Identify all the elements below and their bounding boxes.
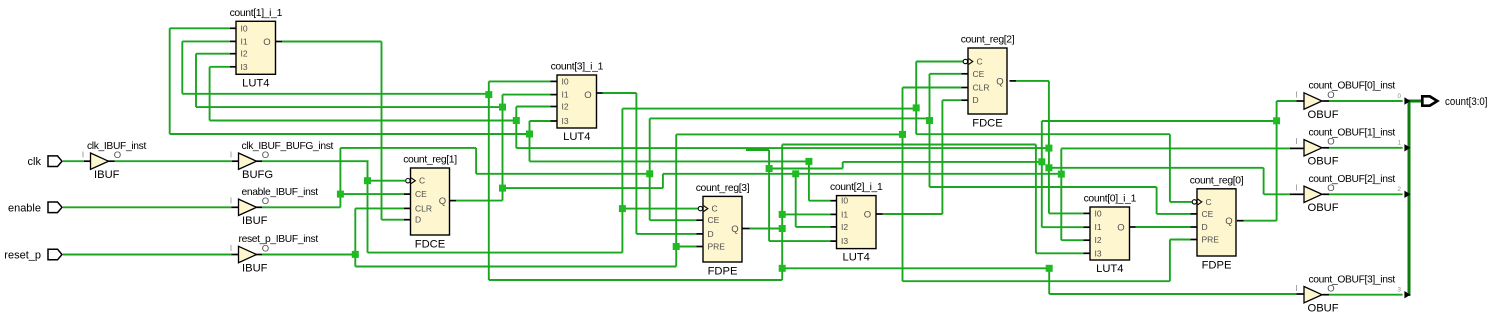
svg-text:CLR: CLR [973, 83, 990, 93]
svg-text:I1: I1 [562, 90, 569, 100]
svg-text:1: 1 [1398, 140, 1402, 147]
svg-text:IBUF: IBUF [242, 215, 268, 227]
svg-text:count[2]_i_1: count[2]_i_1 [830, 182, 883, 193]
svg-text:CLR: CLR [415, 203, 432, 213]
svg-text:D: D [973, 95, 979, 105]
svg-text:OBUF: OBUF [1308, 109, 1339, 121]
svg-text:I3: I3 [841, 236, 848, 246]
svg-text:reset_p: reset_p [4, 250, 41, 262]
svg-text:count_OBUF[1]_inst: count_OBUF[1]_inst [1309, 127, 1396, 138]
svg-text:I2: I2 [841, 222, 848, 232]
svg-text:C: C [419, 176, 425, 186]
svg-text:I: I [230, 197, 232, 206]
svg-text:IBUF: IBUF [94, 169, 120, 181]
svg-text:D: D [1202, 222, 1208, 232]
svg-text:count[3]_i_1: count[3]_i_1 [551, 62, 604, 73]
svg-text:count[1]_i_1: count[1]_i_1 [230, 8, 283, 19]
svg-text:LUT4: LUT4 [242, 77, 269, 89]
svg-text:3: 3 [1398, 287, 1402, 294]
svg-text:enable: enable [8, 202, 41, 214]
svg-text:OBUF: OBUF [1308, 303, 1339, 315]
svg-text:IBUF: IBUF [242, 262, 268, 274]
svg-text:I: I [82, 151, 84, 160]
svg-text:count_OBUF[2]_inst: count_OBUF[2]_inst [1309, 174, 1396, 185]
svg-text:count_reg[1]: count_reg[1] [403, 155, 457, 166]
svg-text:I1: I1 [1095, 222, 1102, 232]
svg-text:LUT4: LUT4 [1096, 263, 1123, 275]
svg-text:clk: clk [28, 156, 42, 168]
svg-text:Q: Q [731, 224, 738, 235]
svg-text:clk_IBUF_BUFG_inst: clk_IBUF_BUFG_inst [242, 141, 334, 152]
svg-text:I0: I0 [562, 76, 569, 86]
svg-text:I: I [1295, 90, 1297, 99]
svg-text:I2: I2 [1095, 235, 1102, 245]
svg-text:I1: I1 [841, 209, 848, 219]
svg-text:I: I [230, 151, 232, 160]
svg-text:LUT4: LUT4 [563, 131, 590, 143]
svg-text:0: 0 [1398, 93, 1402, 100]
svg-text:FDPE: FDPE [1202, 260, 1232, 272]
svg-text:I: I [1295, 137, 1297, 146]
svg-text:clk_IBUF_inst: clk_IBUF_inst [87, 141, 146, 152]
svg-text:I0: I0 [1095, 208, 1102, 218]
svg-text:count_reg[3]: count_reg[3] [696, 183, 750, 194]
svg-text:C: C [712, 204, 718, 214]
svg-text:CE: CE [973, 69, 985, 79]
svg-text:C: C [1206, 197, 1212, 207]
svg-text:I3: I3 [241, 62, 248, 72]
svg-text:2: 2 [1398, 186, 1402, 193]
svg-text:O: O [263, 37, 270, 48]
svg-text:CE: CE [415, 189, 427, 199]
svg-text:I: I [1295, 184, 1297, 193]
svg-text:D: D [415, 215, 421, 225]
svg-text:I: I [230, 244, 232, 253]
svg-text:Q: Q [439, 196, 446, 207]
svg-text:D: D [708, 229, 714, 239]
svg-text:FDCE: FDCE [972, 118, 1002, 130]
svg-text:LUT4: LUT4 [843, 252, 870, 264]
svg-text:C: C [977, 57, 983, 67]
svg-text:PRE: PRE [1202, 235, 1220, 245]
svg-text:I2: I2 [562, 102, 569, 112]
svg-text:FDPE: FDPE [708, 266, 738, 278]
svg-text:PRE: PRE [708, 242, 726, 252]
svg-text:O: O [1117, 223, 1124, 234]
svg-text:O: O [864, 210, 871, 221]
svg-text:CE: CE [708, 215, 720, 225]
svg-text:OBUF: OBUF [1308, 156, 1339, 168]
svg-text:I3: I3 [1095, 248, 1102, 258]
svg-text:I3: I3 [562, 116, 569, 126]
svg-text:I1: I1 [241, 36, 248, 46]
svg-text:reset_p_IBUF_inst: reset_p_IBUF_inst [239, 234, 319, 245]
svg-text:CE: CE [1202, 209, 1214, 219]
svg-text:count_OBUF[3]_inst: count_OBUF[3]_inst [1309, 274, 1396, 285]
svg-text:Q: Q [996, 76, 1003, 87]
svg-text:I0: I0 [241, 23, 248, 33]
svg-text:FDCE: FDCE [415, 239, 445, 251]
svg-text:count_OBUF[0]_inst: count_OBUF[0]_inst [1309, 81, 1396, 92]
svg-text:OBUF: OBUF [1308, 202, 1339, 214]
svg-text:enable_IBUF_inst: enable_IBUF_inst [242, 187, 319, 198]
svg-text:count_reg[2]: count_reg[2] [961, 35, 1015, 46]
svg-text:Q: Q [1225, 216, 1232, 227]
svg-text:I: I [1295, 284, 1297, 293]
svg-text:count_reg[0]: count_reg[0] [1190, 175, 1244, 186]
svg-text:count[3:0]: count[3:0] [1445, 96, 1488, 108]
svg-text:O: O [584, 90, 591, 101]
svg-text:BUFG: BUFG [242, 169, 273, 181]
svg-text:I0: I0 [841, 196, 848, 206]
svg-text:count[0]_i_1: count[0]_i_1 [1084, 194, 1137, 205]
svg-text:I2: I2 [241, 49, 248, 59]
